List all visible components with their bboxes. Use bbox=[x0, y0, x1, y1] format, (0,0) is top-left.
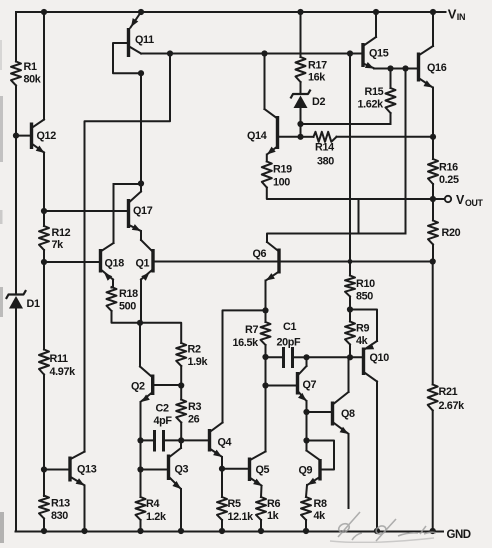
transistor Q10 bbox=[364, 343, 390, 381]
node R20 bottom junction bbox=[430, 258, 436, 264]
svg-text:R20: R20 bbox=[442, 227, 461, 239]
resistor R12 bbox=[39, 226, 71, 251]
wire Q12 collector drop bbox=[43, 12, 45, 120]
svg-text:12.1k: 12.1k bbox=[228, 511, 255, 523]
wire Q17 emitter to Q1 bbox=[140, 231, 142, 240]
transistor Q1 bbox=[136, 240, 154, 281]
wire Q9 collector feed bbox=[307, 441, 320, 460]
svg-text:100: 100 bbox=[273, 177, 290, 189]
wire Q4 collector riser bbox=[223, 310, 266, 422]
wire Q9 base loop bbox=[307, 441, 335, 470]
svg-text:4pF: 4pF bbox=[154, 415, 173, 427]
svg-text:Q6: Q6 bbox=[253, 248, 267, 260]
node VOUT junction bbox=[430, 196, 436, 202]
transistor Q14 bbox=[247, 116, 301, 155]
svg-text:Q10: Q10 bbox=[370, 352, 390, 364]
watermark signature strokes bbox=[330, 512, 436, 542]
svg-text:R7: R7 bbox=[245, 324, 258, 336]
wire R21 to ground bbox=[430, 411, 436, 535]
resistor R21 bbox=[428, 385, 465, 413]
node Q12 base junction bbox=[13, 133, 19, 139]
transistor Q4 bbox=[210, 423, 232, 458]
svg-text:Q9: Q9 bbox=[299, 465, 313, 477]
resistor R2 bbox=[176, 343, 208, 368]
wire Q7 line down bbox=[303, 412, 309, 444]
svg-text:R4: R4 bbox=[146, 498, 159, 510]
svg-text:80k: 80k bbox=[24, 74, 42, 86]
wire Q12 emitter to R12 bbox=[43, 153, 45, 227]
wire R6 to ground bbox=[258, 520, 264, 534]
svg-text:380: 380 bbox=[317, 156, 334, 168]
wire Q11 to Q17 bbox=[140, 73, 142, 183]
transistor Q8 bbox=[333, 392, 356, 434]
resistor R17 bbox=[296, 57, 328, 84]
node R18-Q1 emitter junction bbox=[137, 320, 143, 326]
svg-text:Q4: Q4 bbox=[218, 437, 232, 449]
wire R15 return line bbox=[301, 123, 391, 125]
node Q7 collector junction bbox=[303, 354, 309, 360]
resistor R1 bbox=[11, 61, 42, 86]
node C2 right junction bbox=[178, 437, 184, 443]
node Q16 collector rail junction bbox=[430, 9, 436, 15]
svg-text:R15: R15 bbox=[365, 86, 384, 98]
svg-text:R16: R16 bbox=[439, 162, 458, 174]
resistor R20 bbox=[428, 199, 461, 245]
node base bus junction at main vertical bbox=[348, 259, 353, 264]
svg-text:Q16: Q16 bbox=[427, 62, 447, 74]
node Q11 collector-base junction bbox=[138, 70, 144, 76]
svg-text:Q12: Q12 bbox=[37, 130, 57, 142]
svg-text:Q14: Q14 bbox=[247, 130, 267, 142]
svg-text:1.2k: 1.2k bbox=[146, 511, 167, 523]
transistor Q13 bbox=[44, 452, 97, 486]
svg-text:850: 850 bbox=[356, 291, 373, 303]
svg-text:R18: R18 bbox=[119, 288, 138, 300]
svg-text:Q1: Q1 bbox=[136, 258, 150, 270]
resistor R8 bbox=[301, 497, 327, 522]
wire Q4 emitter node bbox=[219, 457, 225, 472]
wire VIN top rail bbox=[16, 11, 446, 13]
wire D2 node link bbox=[300, 124, 302, 137]
svg-text:D2: D2 bbox=[312, 96, 325, 108]
transistor Q3 bbox=[141, 440, 189, 489]
wire Q5 collector riser bbox=[265, 386, 267, 452]
svg-text:R9: R9 bbox=[356, 323, 369, 335]
node GND terminal label bbox=[447, 529, 471, 541]
node Q14 base junction bbox=[297, 134, 303, 140]
svg-text:R6: R6 bbox=[267, 498, 280, 510]
svg-text:R19: R19 bbox=[273, 164, 292, 176]
wire Q3 emitter to ground bbox=[178, 489, 184, 534]
svg-text:R8: R8 bbox=[314, 498, 327, 510]
wire Q2 emitter drop bbox=[140, 402, 142, 440]
wire C2 node to Q4 base bbox=[181, 439, 209, 441]
transistor Q18 bbox=[44, 243, 124, 281]
wire Q6 collector loop bbox=[267, 234, 406, 243]
wire Q9 emitter to R8 bbox=[306, 485, 307, 497]
wire Q15 emitter to Q16 base bbox=[374, 68, 419, 70]
node Q3 base junction bbox=[137, 466, 143, 472]
svg-text:1.9k: 1.9k bbox=[188, 356, 209, 368]
wire R9 to Q10 base node bbox=[347, 345, 353, 361]
resistor R6 bbox=[256, 486, 280, 522]
resistor R19 bbox=[262, 162, 292, 189]
svg-text:Q11: Q11 bbox=[135, 34, 154, 46]
resistor R10 bbox=[345, 276, 375, 303]
svg-text:1.62k: 1.62k bbox=[358, 99, 385, 111]
node Q14 collector junction bbox=[261, 50, 267, 56]
transistor Q16 bbox=[419, 12, 447, 88]
svg-text:OUT: OUT bbox=[465, 198, 483, 208]
svg-text:0.25: 0.25 bbox=[439, 174, 459, 186]
wire Q1 base bus to Q6 and R20 bbox=[153, 261, 433, 263]
wire R16 to VOUT bbox=[432, 184, 434, 199]
svg-text:R17: R17 bbox=[308, 60, 327, 72]
wire Q7 base line bbox=[262, 357, 297, 389]
transistor Q9 bbox=[299, 459, 321, 485]
wire Q6 emitter drop bbox=[265, 281, 267, 311]
svg-text:Q18: Q18 bbox=[105, 258, 125, 270]
node R12 bottom junction bbox=[41, 259, 47, 265]
svg-text:Q2: Q2 bbox=[131, 381, 145, 393]
svg-text:R5: R5 bbox=[228, 498, 241, 510]
wire R17 to D2 bbox=[300, 82, 302, 94]
wire VOUT sense tee bbox=[358, 199, 360, 234]
svg-text:V: V bbox=[448, 7, 457, 22]
svg-text:26: 26 bbox=[188, 414, 200, 426]
svg-text:R11: R11 bbox=[50, 353, 69, 365]
svg-text:GND: GND bbox=[447, 529, 471, 541]
svg-text:Q5: Q5 bbox=[256, 464, 270, 476]
transistor Q17 bbox=[44, 184, 153, 243]
node Q17 collector junction bbox=[138, 180, 144, 186]
resistor R9 bbox=[345, 322, 369, 348]
wire R5 to ground bbox=[219, 520, 225, 534]
resistor R13 bbox=[39, 496, 70, 523]
node VIN terminal label bbox=[448, 7, 465, 22]
svg-text:Q8: Q8 bbox=[341, 408, 355, 420]
svg-text:4k: 4k bbox=[314, 510, 327, 522]
node Q15 base junction bbox=[347, 50, 353, 56]
resistor R18 bbox=[107, 287, 139, 313]
wire D2 to node bbox=[300, 108, 302, 124]
svg-text:20pF: 20pF bbox=[277, 337, 302, 349]
capacitor C1 bbox=[266, 321, 307, 368]
wire C1 node to Q10 base bbox=[307, 356, 364, 358]
svg-text:R1: R1 bbox=[24, 61, 37, 73]
wire base bus to R21 bbox=[432, 262, 434, 385]
resistor R4 bbox=[136, 470, 167, 524]
svg-text:Q7: Q7 bbox=[303, 379, 317, 391]
svg-text:R2: R2 bbox=[188, 344, 201, 356]
resistor R15 bbox=[358, 69, 396, 114]
svg-text:16k: 16k bbox=[308, 72, 326, 84]
svg-text:7k: 7k bbox=[52, 239, 65, 251]
node Q11 emitter rail junction bbox=[138, 9, 144, 15]
wire Q11 collector bus bbox=[141, 53, 363, 55]
svg-text:R3: R3 bbox=[188, 401, 201, 413]
node Q11 collector line junction bbox=[167, 50, 173, 56]
svg-text:Q15: Q15 bbox=[369, 48, 389, 60]
transistor Q12 bbox=[16, 120, 56, 154]
node Q13 base junction bbox=[41, 466, 47, 472]
wire R2 to node bbox=[180, 366, 182, 386]
svg-text:Q13: Q13 bbox=[77, 464, 97, 476]
wire Q14 collector drop bbox=[265, 54, 277, 118]
wire GND bottom rail bbox=[16, 531, 444, 533]
wire Q2 collector drop bbox=[140, 323, 152, 377]
resistor R7 bbox=[233, 310, 271, 349]
node top rail junction A bbox=[41, 9, 47, 15]
wire Q14 emitter to R19 bbox=[266, 155, 268, 162]
svg-text:C1: C1 bbox=[283, 321, 296, 333]
wire Q15 base feedback riser bbox=[405, 69, 407, 234]
node C2 left junction bbox=[137, 437, 143, 443]
capacitor C2 bbox=[141, 403, 182, 452]
wire R17 feed bbox=[297, 9, 303, 57]
wire Q8 collector riser bbox=[348, 357, 350, 392]
wire main bandgap vertical bbox=[349, 54, 351, 276]
wire Q10 collector to ground bbox=[374, 382, 380, 535]
scan smudge left edge bbox=[0, 40, 4, 543]
svg-text:R21: R21 bbox=[439, 386, 458, 398]
svg-text:R12: R12 bbox=[52, 227, 71, 239]
wire R10 junction link bbox=[349, 297, 351, 322]
wire R12 to R11 bbox=[43, 250, 45, 350]
node R7 top junction bbox=[262, 307, 268, 313]
wire R11 to Q13 base node bbox=[43, 375, 45, 497]
transistor Q2 bbox=[131, 375, 181, 403]
node R14-Q16 emitter junction bbox=[430, 134, 436, 140]
svg-text:16.5k: 16.5k bbox=[233, 337, 260, 349]
svg-text:D1: D1 bbox=[27, 298, 40, 310]
wire R13 to ground bbox=[41, 519, 47, 535]
wire Q4 emitter to Q5 base bbox=[222, 468, 250, 470]
wire R18 bottom elbow bbox=[112, 311, 141, 323]
svg-text:Q17: Q17 bbox=[133, 205, 153, 217]
svg-text:4k: 4k bbox=[356, 335, 369, 347]
resistor R14 bbox=[301, 132, 434, 168]
svg-text:830: 830 bbox=[51, 510, 68, 522]
wire Q16 emitter drop bbox=[432, 88, 434, 137]
node R15 top junction bbox=[387, 65, 393, 71]
node Q15 collector rail junction bbox=[373, 9, 379, 15]
wire Q1 emitter drop bbox=[140, 280, 142, 323]
wire R7 to C1 node bbox=[265, 345, 267, 357]
node R12 top junction bbox=[41, 208, 47, 214]
wire R8 to ground bbox=[303, 520, 309, 534]
node C1 left junction bbox=[262, 354, 268, 360]
resistor R5 bbox=[217, 469, 254, 523]
transistor Q5 bbox=[250, 452, 270, 487]
wire Q10 emitter feed bbox=[350, 310, 377, 350]
svg-text:2.67k: 2.67k bbox=[439, 400, 466, 412]
svg-text:1k: 1k bbox=[267, 510, 280, 522]
wire Q8 emitter drop bbox=[348, 434, 350, 508]
node R10-R9 junction bbox=[347, 306, 353, 312]
zener diode D2 bbox=[291, 91, 325, 109]
wire R4 to ground bbox=[137, 520, 143, 534]
svg-text:IN: IN bbox=[457, 12, 465, 22]
wire D1 to ground bbox=[15, 309, 17, 532]
transistor Q7 bbox=[298, 357, 317, 401]
wire Q18 emitter to R18 bbox=[112, 280, 114, 288]
svg-text:500: 500 bbox=[119, 301, 136, 313]
transistor Q6 bbox=[253, 242, 280, 281]
wire R15 bottom elbow bbox=[390, 113, 392, 124]
svg-text:R13: R13 bbox=[51, 498, 70, 510]
wire R3 to C2 node bbox=[180, 423, 182, 441]
svg-text:4.97k: 4.97k bbox=[50, 366, 77, 378]
wire Q7 emitter to Q8 base bbox=[307, 411, 333, 413]
wire R20 to base bus bbox=[432, 245, 434, 262]
wire Q11 collector feed jog bbox=[85, 54, 171, 452]
zener diode D1 bbox=[7, 291, 40, 310]
wire Q13 emitter to ground bbox=[81, 486, 87, 535]
transistor Q11 bbox=[113, 12, 154, 73]
node Q2 base junction bbox=[178, 382, 184, 388]
svg-text:Q3: Q3 bbox=[175, 464, 189, 476]
node D2 bottom junction bbox=[297, 121, 303, 127]
resistor R3 bbox=[176, 386, 201, 426]
wire left column upper bbox=[15, 12, 17, 295]
svg-text:C2: C2 bbox=[156, 403, 169, 415]
svg-text:V: V bbox=[456, 193, 465, 207]
resistor R11 bbox=[39, 350, 76, 379]
wire Q2 emitter to Q3 node bbox=[140, 440, 142, 469]
svg-text:R14: R14 bbox=[315, 142, 334, 154]
resistor R16 bbox=[428, 137, 459, 186]
wire R2 top elbow bbox=[140, 323, 181, 343]
node feedback riser junction bbox=[402, 65, 408, 71]
node VOUT terminal bbox=[436, 193, 483, 208]
wire R19 to VOUT line bbox=[267, 188, 433, 200]
svg-text:R10: R10 bbox=[356, 278, 375, 290]
transistor Q15 bbox=[363, 12, 389, 69]
wire Q7 emitter drop bbox=[303, 401, 309, 415]
